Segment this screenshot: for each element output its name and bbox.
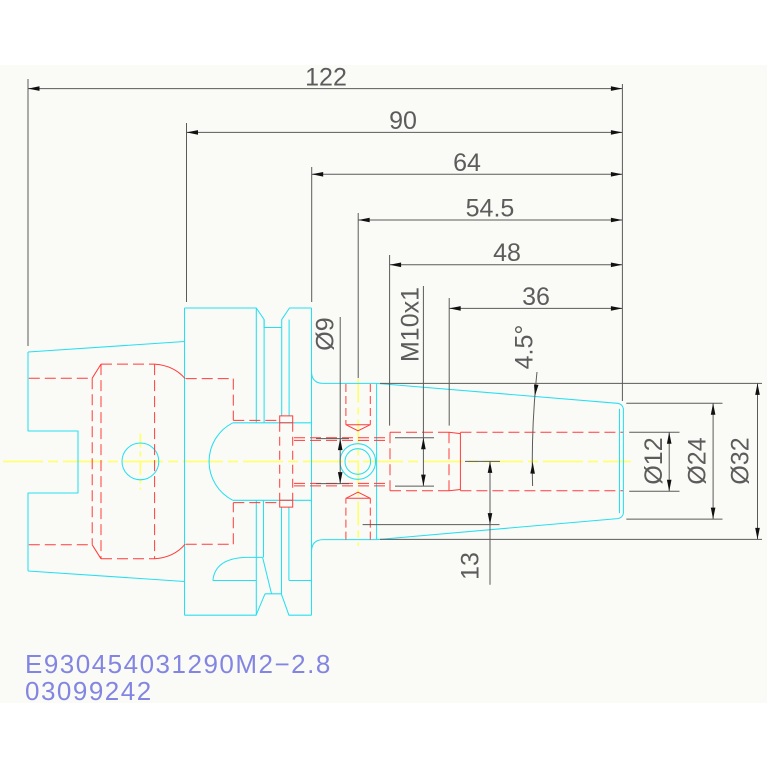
svg-text:64: 64 xyxy=(453,149,481,177)
svg-text:M10x1: M10x1 xyxy=(397,287,425,362)
svg-text:54.5: 54.5 xyxy=(466,195,515,223)
svg-text:03099242: 03099242 xyxy=(25,676,153,706)
svg-text:90: 90 xyxy=(389,107,417,135)
svg-text:Ø32: Ø32 xyxy=(727,437,755,484)
svg-text:Ø12: Ø12 xyxy=(640,437,668,484)
svg-text:Ø24: Ø24 xyxy=(684,437,712,484)
svg-text:4.5°: 4.5° xyxy=(511,325,539,370)
svg-text:E930454031290M2−2.8: E930454031290M2−2.8 xyxy=(25,649,332,679)
svg-text:48: 48 xyxy=(493,239,521,267)
svg-text:36: 36 xyxy=(522,283,550,311)
svg-text:Ø9: Ø9 xyxy=(312,317,340,350)
svg-text:122: 122 xyxy=(305,64,347,92)
svg-text:13: 13 xyxy=(457,552,485,580)
